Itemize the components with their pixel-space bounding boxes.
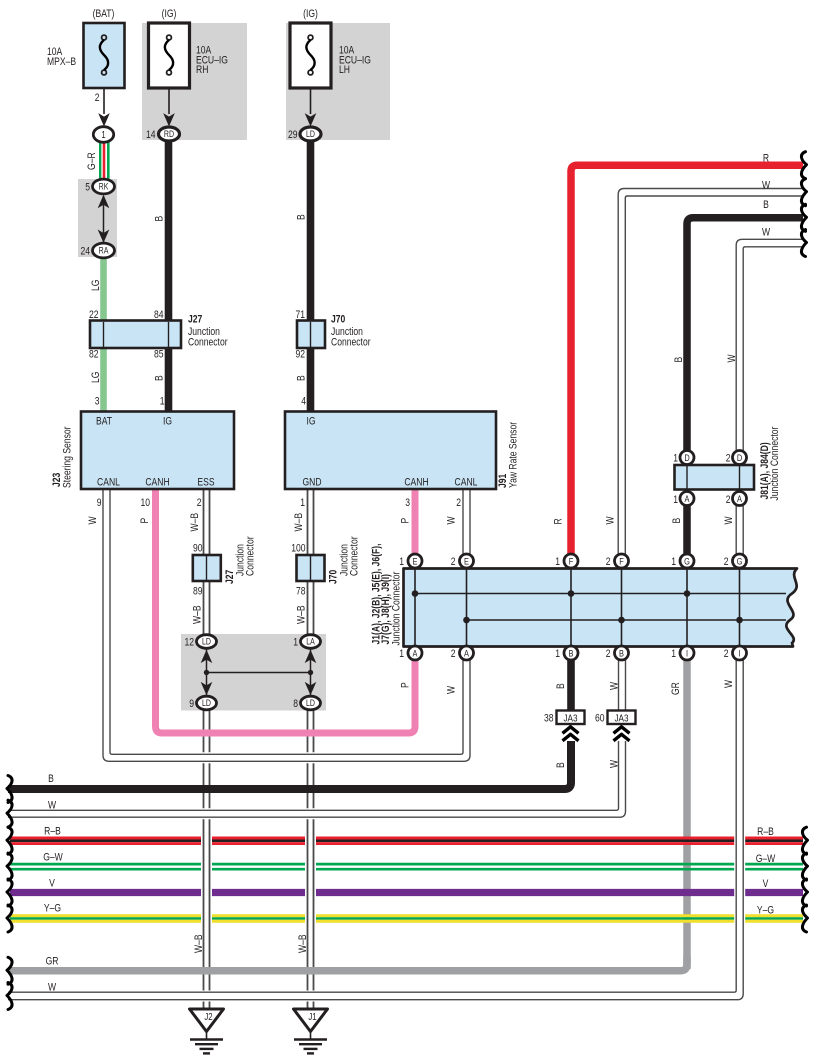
- svg-text:B: B: [619, 647, 624, 658]
- svg-text:Yaw Rate Sensor: Yaw Rate Sensor: [508, 421, 520, 488]
- svg-text:V: V: [763, 878, 769, 890]
- svg-text:JA3: JA3: [563, 711, 577, 723]
- svg-text:1: 1: [555, 556, 560, 568]
- svg-text:B: B: [555, 762, 567, 768]
- svg-text:D: D: [737, 452, 742, 463]
- svg-text:60: 60: [595, 713, 605, 725]
- svg-text:85: 85: [154, 349, 164, 361]
- svg-text:8: 8: [293, 698, 298, 710]
- svg-text:9: 9: [189, 698, 194, 710]
- svg-text:G: G: [684, 555, 690, 566]
- svg-text:90: 90: [193, 543, 203, 555]
- svg-text:ESS: ESS: [197, 477, 215, 489]
- svg-text:LD: LD: [306, 129, 315, 139]
- svg-text:LD: LD: [202, 637, 211, 647]
- svg-text:J2: J2: [204, 1011, 212, 1022]
- svg-text:1: 1: [671, 648, 676, 660]
- svg-text:BAT: BAT: [96, 416, 112, 428]
- svg-text:W: W: [762, 179, 771, 191]
- svg-text:F: F: [569, 555, 574, 566]
- svg-text:W: W: [446, 516, 458, 525]
- svg-text:A: A: [737, 493, 742, 504]
- svg-text:2: 2: [95, 92, 100, 104]
- svg-text:P: P: [139, 517, 151, 523]
- svg-text:22: 22: [89, 309, 99, 321]
- svg-text:71: 71: [295, 309, 305, 321]
- svg-text:B: B: [48, 773, 54, 785]
- svg-text:CANL: CANL: [97, 477, 120, 489]
- svg-text:B: B: [671, 517, 683, 523]
- svg-text:W: W: [48, 982, 57, 994]
- svg-text:Connector: Connector: [349, 536, 361, 576]
- svg-text:B: B: [569, 647, 574, 658]
- svg-text:R: R: [553, 518, 565, 524]
- svg-text:1: 1: [300, 497, 305, 509]
- svg-text:A: A: [464, 647, 469, 658]
- svg-text:2: 2: [726, 453, 731, 465]
- svg-text:G–W: G–W: [756, 853, 776, 865]
- svg-text:82: 82: [89, 349, 99, 361]
- svg-text:J70: J70: [331, 314, 346, 326]
- svg-text:(IG): (IG): [303, 8, 318, 20]
- svg-text:4: 4: [301, 396, 306, 408]
- svg-text:W–B: W–B: [293, 513, 305, 532]
- svg-text:Connector: Connector: [331, 337, 371, 349]
- svg-text:W–B: W–B: [297, 934, 309, 953]
- svg-text:LD: LD: [306, 698, 315, 708]
- svg-text:1: 1: [399, 556, 404, 568]
- svg-text:Connector: Connector: [245, 536, 257, 576]
- svg-text:2: 2: [456, 497, 461, 509]
- svg-text:1: 1: [160, 396, 165, 408]
- svg-text:89: 89: [193, 586, 203, 598]
- svg-text:J1: J1: [308, 1011, 316, 1022]
- svg-text:J27: J27: [188, 314, 203, 326]
- svg-text:W–B: W–B: [189, 513, 201, 532]
- svg-text:B: B: [673, 356, 685, 362]
- svg-text:2: 2: [606, 556, 611, 568]
- svg-text:W–B: W–B: [296, 605, 308, 624]
- svg-text:W: W: [723, 516, 735, 525]
- svg-text:14: 14: [146, 129, 156, 141]
- svg-text:1: 1: [673, 494, 678, 506]
- svg-text:B: B: [296, 375, 308, 381]
- svg-text:G–R: G–R: [86, 152, 98, 170]
- svg-text:V: V: [49, 878, 55, 890]
- svg-text:84: 84: [154, 309, 164, 321]
- svg-text:2: 2: [726, 494, 731, 506]
- svg-text:LG: LG: [90, 280, 102, 291]
- svg-text:I: I: [686, 647, 688, 658]
- svg-text:1: 1: [555, 648, 560, 660]
- svg-text:(IG): (IG): [162, 8, 177, 20]
- svg-text:9: 9: [97, 497, 102, 509]
- svg-text:RD: RD: [164, 129, 174, 139]
- svg-text:R: R: [763, 153, 769, 165]
- svg-text:78: 78: [296, 586, 306, 598]
- svg-text:1: 1: [673, 453, 678, 465]
- svg-text:100: 100: [291, 543, 306, 555]
- svg-text:B: B: [555, 683, 567, 689]
- svg-text:F: F: [619, 555, 624, 566]
- svg-text:P: P: [400, 682, 412, 688]
- svg-text:(BAT): (BAT): [93, 8, 115, 20]
- svg-text:CANL: CANL: [455, 477, 478, 489]
- svg-text:W: W: [726, 354, 738, 363]
- svg-text:I: I: [738, 647, 740, 658]
- svg-text:W: W: [446, 685, 458, 694]
- svg-text:P: P: [400, 517, 412, 523]
- svg-text:5: 5: [85, 182, 90, 194]
- svg-text:W–B: W–B: [193, 934, 205, 953]
- svg-text:G: G: [737, 555, 743, 566]
- svg-text:RA: RA: [99, 246, 109, 256]
- svg-text:B: B: [153, 375, 165, 381]
- svg-text:B: B: [763, 199, 769, 211]
- svg-text:2: 2: [724, 648, 729, 660]
- svg-text:W: W: [48, 800, 57, 812]
- svg-text:W: W: [723, 679, 735, 688]
- svg-text:E: E: [464, 555, 469, 566]
- svg-text:B: B: [296, 214, 308, 220]
- svg-text:GR: GR: [46, 956, 59, 968]
- svg-text:Y–G: Y–G: [757, 905, 774, 917]
- svg-text:R–B: R–B: [44, 826, 61, 838]
- svg-text:IG: IG: [163, 416, 172, 428]
- svg-text:Steering Sensor: Steering Sensor: [62, 426, 74, 488]
- svg-text:LA: LA: [306, 637, 315, 647]
- svg-text:RH: RH: [196, 64, 208, 76]
- svg-text:2: 2: [451, 648, 456, 660]
- svg-text:1: 1: [399, 648, 404, 660]
- svg-text:RK: RK: [99, 182, 109, 192]
- svg-text:W: W: [609, 681, 621, 690]
- svg-text:3: 3: [405, 497, 410, 509]
- svg-text:W: W: [605, 516, 617, 525]
- svg-text:LD: LD: [202, 698, 211, 708]
- svg-text:R–B: R–B: [757, 826, 774, 838]
- svg-text:G–W: G–W: [43, 852, 63, 864]
- svg-text:W–B: W–B: [192, 605, 204, 624]
- svg-text:Junction Connector: Junction Connector: [391, 571, 403, 646]
- svg-text:1: 1: [101, 129, 105, 140]
- svg-text:24: 24: [80, 246, 90, 258]
- svg-text:2: 2: [606, 648, 611, 660]
- svg-text:Connector: Connector: [188, 337, 228, 349]
- svg-text:W: W: [609, 759, 621, 768]
- svg-text:JA3: JA3: [614, 711, 628, 723]
- svg-text:GR: GR: [670, 682, 682, 695]
- svg-text:MPX–B: MPX–B: [47, 56, 76, 68]
- svg-text:B: B: [153, 215, 165, 221]
- svg-text:2: 2: [197, 497, 202, 509]
- svg-text:CANH: CANH: [145, 477, 169, 489]
- svg-text:Y–G: Y–G: [44, 903, 61, 915]
- svg-text:LG: LG: [90, 372, 102, 383]
- svg-text:IG: IG: [306, 416, 315, 428]
- svg-text:3: 3: [95, 396, 100, 408]
- svg-text:12: 12: [184, 637, 194, 649]
- svg-text:GND: GND: [302, 477, 321, 489]
- svg-text:W: W: [87, 516, 99, 525]
- svg-text:2: 2: [451, 556, 456, 568]
- svg-text:2: 2: [724, 556, 729, 568]
- svg-text:1: 1: [293, 637, 298, 649]
- svg-text:29: 29: [288, 129, 298, 141]
- svg-text:A: A: [413, 647, 418, 658]
- svg-text:E: E: [413, 555, 418, 566]
- svg-text:CANH: CANH: [404, 477, 428, 489]
- svg-text:1: 1: [671, 556, 676, 568]
- svg-text:92: 92: [295, 349, 305, 361]
- svg-text:38: 38: [544, 713, 554, 725]
- svg-text:A: A: [685, 493, 690, 504]
- svg-text:Junction Connector: Junction Connector: [769, 426, 781, 501]
- svg-text:LH: LH: [339, 64, 350, 76]
- svg-text:W: W: [762, 227, 771, 239]
- svg-text:10: 10: [140, 497, 150, 509]
- svg-text:D: D: [684, 452, 689, 463]
